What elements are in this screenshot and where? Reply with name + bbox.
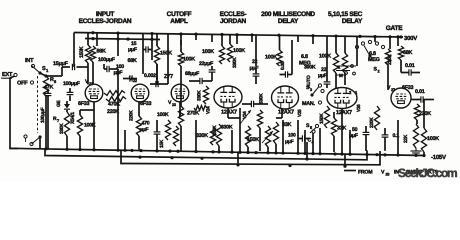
tube V26 12AX7 [327,88,357,109]
resistor 220K gate divider [385,49,390,65]
wire sub-rail [85,39,160,40]
svg-text:390K: 390K [304,65,316,71]
svg-text:220K: 220K [387,54,393,65]
resistor 100K plate [178,52,183,66]
svg-text:100K: 100K [319,54,331,60]
resistor 100K v23 screen [219,46,224,64]
wire input node to V21 grid [73,62,75,67]
svg-text:330K: 330K [232,57,238,68]
svg-text:470: 470 [142,121,150,127]
wire +300V top rail [74,33,403,38]
resistor 22K V27 cathode [413,124,418,148]
svg-text:3: 3 [310,88,312,92]
svg-text:220K: 220K [419,111,431,117]
svg-text:15μμF: 15μμF [53,61,69,67]
svg-text:100K: 100K [202,49,214,55]
resistor 150K V26 [324,106,329,128]
svg-text:ECCLES-JORDAN: ECCLES-JORDAN [79,18,132,25]
resistor 100K V23 cathode [178,106,183,126]
resistor 220K V22 out [136,116,141,136]
switch S2 contact ladder [356,37,358,66]
diode GE X54/1 [66,101,68,104]
svg-text:20: 20 [386,173,390,177]
svg-text:DELAY: DELAY [278,18,299,25]
svg-text:μμF: μμF [128,47,137,53]
resistor 330K V23 grid [203,86,208,104]
svg-text:220K: 220K [129,110,135,121]
switch S1b lower section [24,135,27,138]
rotary switch S2 [355,45,358,48]
svg-text:GE: GE [56,100,62,107]
wire V21 cathode down [93,102,95,110]
svg-text:0.01: 0.01 [415,89,425,95]
svg-text:100: 100 [288,133,296,139]
node dots on top rail [91,31,94,34]
tube V21 6F33 [85,84,103,102]
svg-text:INT: INT [25,58,34,64]
svg-text:AMPL: AMPL [170,18,188,25]
svg-text:7: 7 [57,119,59,123]
svg-text:INPUT: INPUT [96,11,115,18]
svg-text:GATE: GATE [386,25,403,32]
wire EXT down to bottom rail [10,76,18,149]
svg-text:6F33: 6F33 [402,85,414,91]
switch S1 arm [32,66,41,74]
resistor 150K plate V21 [85,45,90,63]
wire feeders to bottom rail [93,110,95,150]
switch S1 gang dashed link [37,76,39,133]
tube V24 12AX7 [214,86,242,108]
resistor 33K V25 cathode [273,122,278,144]
svg-text:μμF: μμF [250,66,259,72]
resistor between V24 V25 [257,110,262,128]
svg-text:0.01: 0.01 [405,63,415,69]
svg-text:100K: 100K [427,136,439,142]
resistor 220K V26 plate [374,106,379,130]
svg-text:ECCLES-: ECCLES- [220,11,247,18]
svg-text:300V: 300V [404,35,417,42]
wire misc connections [179,110,181,116]
resistor 220K V27 plate [414,104,419,120]
svg-text:330K: 330K [59,123,65,134]
capacitor interstage [250,101,252,107]
svg-text:0.05: 0.05 [280,61,286,70]
svg-text:X54/1: X54/1 [70,112,76,124]
resistor 68K V22 grid [154,46,159,64]
resistor 100K plate V24 [227,44,232,62]
tube V23 Z77 [171,84,189,102]
svg-text:M: M [339,73,343,78]
svg-text:100K: 100K [157,112,169,118]
svg-text:2: 2 [378,70,380,74]
svg-text:12AX7: 12AX7 [336,110,352,116]
wire bottom third line [121,150,380,165]
resistor 330K R7 [64,112,69,136]
svg-text:CUTOFF: CUTOFF [167,11,192,18]
svg-text:270K: 270K [187,111,199,117]
svg-text:150K: 150K [160,51,172,57]
svg-text:6F33: 6F33 [140,101,152,107]
svg-text:22: 22 [133,79,137,83]
resistor 68K gate [398,46,403,60]
wires gate block [387,65,389,90]
svg-text:OFF: OFF [17,81,28,87]
svg-text:100μμF: 100μμF [40,107,46,123]
resistor 68K [90,46,95,62]
resistor R6 47K [43,76,48,96]
svg-text:DELAY: DELAY [342,18,363,25]
wires V21 V22 plates [87,63,89,85]
svg-text:68K: 68K [403,50,412,56]
svg-text:V25: V25 [297,109,302,117]
svg-text:150K: 150K [79,46,85,58]
svg-text:27: 27 [391,88,395,92]
svg-text:MEG: MEG [368,57,380,63]
switch S3 auto-man [318,84,321,87]
pot arrow 2 [240,110,251,124]
capacitor 0.1 [382,134,389,136]
svg-text:200 MILLISECOND: 200 MILLISECOND [261,11,315,18]
tube V27 6F33 [391,88,411,108]
svg-text:68K: 68K [97,49,106,55]
svg-text:150K: 150K [319,113,325,124]
resistor 100K output [421,128,426,152]
terminal EXT [14,73,17,76]
wire rail drops [73,33,75,63]
svg-text:5,10,15 SEC: 5,10,15 SEC [328,11,363,18]
svg-text:5: 5 [310,126,312,130]
svg-text:12AX7: 12AX7 [278,110,294,116]
resistor 100K V21 cathode [77,115,82,136]
svg-text:100K: 100K [265,55,277,61]
wires V23 [156,64,158,80]
svg-text:MAN.: MAN. [302,101,316,107]
tube V22 6F33 [131,84,149,102]
resistor 100K plate V25 [277,50,282,66]
pot arrow [262,131,273,143]
svg-text:μμF: μμF [140,127,149,133]
svg-text:JORDAN: JORDAN [220,18,247,25]
svg-text:6.8: 6.8 [301,54,308,60]
svg-text:68K: 68K [128,58,137,64]
svg-text:Z77: Z77 [164,74,173,80]
svg-text:-105V: -105V [431,154,446,161]
svg-text:SeekJC.com: SeekJC.com [398,166,457,180]
svg-text:100K: 100K [233,48,245,54]
ground symbol [415,148,417,151]
parallel resistors 15K [165,120,170,140]
svg-text:V26: V26 [356,104,361,112]
wire S1 pole to R6 node [40,73,46,76]
svg-text:μμF: μμF [285,139,294,145]
capacitor 22uuF [209,69,216,71]
switch S5 lower [315,124,318,127]
svg-text:0.002: 0.002 [144,73,156,79]
node dots on line2 [138,156,141,159]
svg-text:330K: 330K [259,93,265,104]
svg-text:220K: 220K [369,117,375,128]
svg-text:68μμF: 68μμF [185,71,199,77]
svg-text:12AX7: 12AX7 [221,110,237,116]
wire bottom second line [45,149,367,160]
svg-text:V24: V24 [206,106,211,114]
svg-text:100μμF: 100μμF [63,81,80,87]
capacitor 100uuF R7 bypass [45,92,52,94]
node dots on line3 [236,163,239,166]
svg-text:330K: 330K [197,90,203,101]
wire bottom main rail [10,148,424,155]
svg-text:6F33: 6F33 [78,101,90,107]
svg-text:22: 22 [252,59,258,65]
resistor 150K pot [265,126,270,147]
wire FROM V20 line [344,170,356,172]
svg-text:22μμF: 22μμF [199,61,213,67]
svg-text:μμF: μμF [318,73,327,79]
svg-text:23: 23 [172,103,176,107]
node dots bottom rail [44,147,47,150]
svg-text:330K: 330K [221,125,233,131]
svg-text:22K: 22K [403,134,409,143]
svg-text:FROM: FROM [358,170,372,176]
tube V25 12AX7 [272,86,299,109]
resistor 470K coupling [104,91,125,96]
svg-text:15K: 15K [159,139,165,148]
svg-text:100K: 100K [183,57,195,63]
resistor 150K lower [216,124,221,146]
svg-text:100μμF: 100μμF [98,57,115,63]
svg-text:330K: 330K [196,133,208,139]
svg-text:150K: 150K [247,137,259,143]
